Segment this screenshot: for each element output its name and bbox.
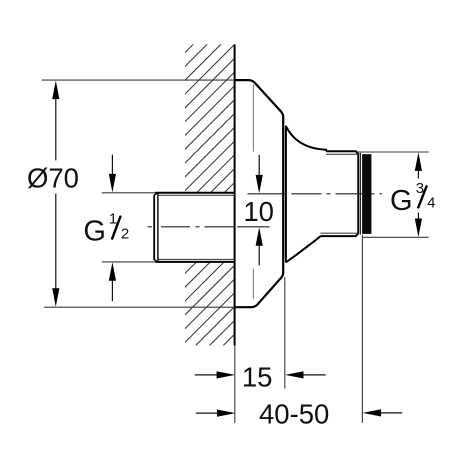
svg-text:Ø70: Ø70 [27,162,79,193]
svg-text:G: G [83,216,106,248]
dimension G1/2 bottom arrow [109,262,116,301]
pipe G1/2 thread root top [159,194,235,196]
dimension G1/2 label [83,210,129,247]
dimension G3/4 extension top [358,151,429,153]
svg-text:1: 1 [109,210,117,227]
flange face contour line lower [252,269,254,300]
dimension 15 right arrow [285,371,326,378]
thread G3/4 end face [357,153,359,234]
gasket [362,154,371,234]
pipe centerline [148,226,270,228]
flange outline [235,80,284,307]
thread G3/4 root bottom [320,232,358,234]
pipe G1/2 outline [154,193,234,262]
svg-text:4: 4 [427,194,435,211]
dimension G3/4 label [390,180,435,217]
thread G3/4 root top [326,153,358,155]
dimension 40-50 right arrow [363,409,403,416]
svg-text:40-50: 40-50 [259,398,329,429]
dimension 15 left arrow [195,371,235,378]
thread G3/4 crest bottom [320,233,358,236]
svg-text:2: 2 [121,226,129,243]
bell silhouette front edge [285,126,287,263]
dimension 40-50 left arrow [196,410,236,417]
dimension D70 line and arrows [52,81,59,307]
flange edge extension line [284,277,286,389]
bell lower curve [286,236,320,262]
gasket seat line [359,153,361,235]
dimension G3/4 extension bottom [362,236,428,238]
wall face extension line [234,345,236,423]
fitting centerline [248,193,383,195]
dimension 10 top arrow [256,155,263,194]
gasket end extension line [361,235,363,423]
dimension G1/2 top arrow [109,155,116,193]
thread G3/4 crest top [326,151,358,154]
wall hatch [0,40,470,350]
dimension G1/2 reference top [102,192,156,194]
svg-text:10: 10 [243,196,274,227]
dimension G1/2 reference bottom [102,261,156,263]
wall face line [234,44,236,345]
pipe G1/2 thread root bottom [159,258,235,260]
svg-text:G: G [390,185,413,217]
dimension 10 bottom arrow [256,227,263,265]
dimension G3/4 line and arrows [415,152,422,237]
bell upper curve [286,126,326,151]
dimension D70 extension bottom [44,306,235,308]
flange face contour line upper [252,84,254,151]
dimension D70 extension top [42,79,235,81]
svg-text:15: 15 [242,361,273,392]
